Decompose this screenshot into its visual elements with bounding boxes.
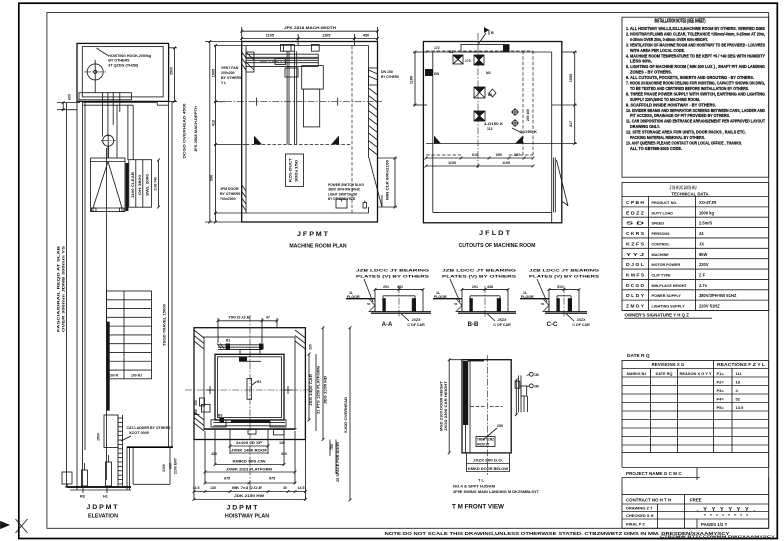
machine room power text xyxy=(328,183,364,201)
svg-text:JZB LDCC JT BEARING: JZB LDCC JT BEARING xyxy=(529,269,599,273)
cutouts small diamond xyxy=(489,89,496,97)
svg-text:2. HOISTWAY:PLUMB AND CLEAR, T: 2. HOISTWAY:PLUMB AND CLEAR, TOLERANCE +… xyxy=(626,31,765,36)
hoistway car walls xyxy=(215,354,284,420)
cutouts trap door xyxy=(461,45,510,53)
svg-text:Y Y J: Y Y J xyxy=(626,252,645,257)
svg-text:PROJECT NAME G C M C: PROJECT NAME G C M C xyxy=(626,471,682,476)
svg-text:C P B H: C P B H xyxy=(626,200,644,205)
machine room centerline cross xyxy=(225,98,382,106)
svg-text:13. ANY QUERIES PLEASE CONTACT: 13. ANY QUERIES PLEASE CONTACT OUR LOCAL… xyxy=(626,140,742,145)
hoistway horizontal centerline xyxy=(185,386,313,394)
svg-text:NO.4 & SFPT HJDKM: NO.4 & SFPT HJDKM xyxy=(453,485,495,489)
svg-text:DUTY LOAD: DUTY LOAD xyxy=(652,211,674,215)
svg-text:BY OTHERS: BY OTHERS xyxy=(221,76,242,80)
svg-text:DRAWING ONLY.: DRAWING ONLY. xyxy=(630,124,660,129)
svg-text:ZONES - BY OTHERS.: ZONES - BY OTHERS. xyxy=(630,70,672,75)
section C-C leader xyxy=(537,279,547,302)
svg-text:MOTOR POWER: MOTOR POWER xyxy=(652,263,681,267)
svg-text:1105: 1105 xyxy=(322,34,330,38)
elevation machine room box xyxy=(77,43,169,101)
svg-text:FINAL P Z: FINAL P Z xyxy=(626,522,646,527)
svg-text:D C G D: D C G D xyxy=(626,283,645,288)
svg-text:24: 24 xyxy=(699,231,704,236)
machine room wall hatch xyxy=(242,52,378,211)
svg-text:J F P M T: J F P M T xyxy=(297,231,328,238)
svg-text:DN 150: DN 150 xyxy=(381,70,393,74)
svg-text:P5=: P5= xyxy=(717,405,725,410)
contract block xyxy=(622,495,769,529)
svg-text:PRODUCT NO.: PRODUCT NO. xyxy=(652,201,678,205)
svg-text:230: 230 xyxy=(194,409,198,415)
svg-text:220V: 220V xyxy=(699,262,709,267)
project name row xyxy=(622,468,769,481)
svg-text:111: 111 xyxy=(736,371,743,376)
svg-text:4. MACHINE ROOM TEMPERATURE TO: 4. MACHINE ROOM TEMPERATURE TO BE KEPT +… xyxy=(626,53,765,58)
revisions header text xyxy=(652,362,766,367)
machine room door dim xyxy=(378,157,398,209)
svg-text:1500: 1500 xyxy=(97,433,101,441)
section C-C body xyxy=(545,289,587,313)
svg-text:295: 295 xyxy=(309,344,313,350)
elevation main vertical dimension xyxy=(57,94,80,487)
cutouts left block xyxy=(425,69,440,76)
hoistway plan outer walls xyxy=(194,328,305,440)
svg-text:B1: B1 xyxy=(488,93,492,97)
svg-text:JXZX: JXZX xyxy=(498,318,508,322)
cutouts title xyxy=(459,230,536,249)
section B-B label xyxy=(468,322,479,328)
svg-text:C OF CAR: C OF CAR xyxy=(407,323,425,327)
svg-text:JXZX: JXZX xyxy=(577,318,587,322)
svg-text:TSGD TRAVEL 15000: TSGD TRAVEL 15000 xyxy=(163,304,167,346)
svg-text:MIN CLR 800x2100: MIN CLR 800x2100 xyxy=(386,160,390,200)
machine room plan outer walls xyxy=(242,42,378,223)
svg-text:9. SCAFFOLD INSIDE HOISTWAY -: 9. SCAFFOLD INSIDE HOISTWAY - BY OTHERS. xyxy=(626,102,716,107)
svg-text:WITH AREA PER LOCAL CODE.: WITH AREA PER LOCAL CODE. xyxy=(630,48,685,53)
svg-text:P1=: P1= xyxy=(717,371,725,376)
svg-text:P2=: P2= xyxy=(717,379,725,384)
elevation overhead rotated text xyxy=(183,104,187,159)
svg-text:C-C: C-C xyxy=(547,322,558,328)
section A-A dims xyxy=(374,285,425,291)
svg-text:2100 ENT: 2100 ENT xyxy=(174,457,178,474)
hoistway wall hatch xyxy=(194,330,305,431)
svg-text:WCM 25: WCM 25 xyxy=(477,442,489,446)
svg-text:JDK 2150 HW: JDK 2150 HW xyxy=(234,494,265,498)
svg-text:201: 201 xyxy=(472,285,478,289)
machine room door rotated label xyxy=(386,160,390,200)
front view inner lines xyxy=(470,355,502,475)
svg-text:172: 172 xyxy=(434,46,440,50)
svg-text:650: 650 xyxy=(496,153,502,157)
svg-text:CHECKED S H: CHECKED S H xyxy=(626,513,654,518)
hoistway car center fixture xyxy=(247,379,261,400)
svg-text:OH 3800: OH 3800 xyxy=(138,175,142,195)
machine room hoistway dashed outline xyxy=(246,46,352,214)
svg-text:J D P M T: J D P M T xyxy=(87,504,118,511)
svg-text:438: 438 xyxy=(487,285,493,289)
section A-A leader xyxy=(364,279,373,302)
svg-text:TMDK TCMZ: TMDK TCMZ xyxy=(477,438,495,442)
front view sill text xyxy=(476,437,495,447)
svg-text:JX: JX xyxy=(699,241,704,246)
svg-text:FREE: FREE xyxy=(690,498,702,503)
cutouts B flag xyxy=(478,27,494,45)
front view left dim xyxy=(440,358,463,454)
svg-text:M2: M2 xyxy=(486,71,491,75)
cutouts hole circles xyxy=(511,108,519,127)
cutouts left dim xyxy=(410,46,440,106)
cutouts squares with X xyxy=(453,55,485,121)
machine room door text left xyxy=(220,187,241,201)
svg-text:50: 50 xyxy=(367,302,371,306)
svg-text:500: 500 xyxy=(210,175,214,181)
svg-text:Z M D Y: Z M D Y xyxy=(626,304,644,309)
svg-text:PERSONS: PERSONS xyxy=(652,232,671,236)
cutouts door swing xyxy=(554,158,569,213)
svg-text:KZG DUCT: KZG DUCT xyxy=(289,157,293,182)
front view bottom dims xyxy=(467,453,510,472)
machine room plan inner walls xyxy=(246,46,378,214)
elevation title xyxy=(87,504,119,520)
svg-text:C OF CAR: C OF CAR xyxy=(572,323,590,327)
cutouts dashed hoistway xyxy=(426,51,533,155)
svg-text:JXNK 1400 ROOF: JXNK 1400 ROOF xyxy=(231,449,268,453)
svg-text:130: 130 xyxy=(210,486,216,490)
technical data grid xyxy=(622,197,769,311)
section A-A centerline xyxy=(398,286,400,318)
svg-text:6. ALL CUTOUTS, POCKETS, INSER: 6. ALL CUTOUTS, POCKETS, INSERTS AND GRO… xyxy=(626,75,754,80)
svg-text:700 D.O.E: 700 D.O.E xyxy=(228,315,251,319)
machine room vent text left xyxy=(221,66,242,85)
hook label text xyxy=(97,48,152,67)
hoistway car door operator xyxy=(239,357,261,362)
machine room door swing xyxy=(369,158,382,207)
elevation machine room height dim xyxy=(169,46,177,102)
svg-text:HOISTING HOOK,2000kg: HOISTING HOOK,2000kg xyxy=(108,54,151,58)
svg-text:1M: 1M xyxy=(534,373,539,377)
svg-text:1100 CLEAR: 1100 CLEAR xyxy=(131,171,135,198)
cutouts outer wall xyxy=(423,42,561,223)
svg-text:E1: E1 xyxy=(449,50,453,54)
svg-text:POWER SWITCH DLKG: POWER SWITCH DLKG xyxy=(328,183,364,187)
svg-text:3. VENTILATION OF MACHINE ROOM: 3. VENTILATION OF MACHINE ROOM AND HOIST… xyxy=(626,42,765,47)
svg-text:FASCIA/DRAIL REQD AT SLAB: FASCIA/DRAIL REQD AT SLAB xyxy=(57,245,61,332)
svg-text:R1: R1 xyxy=(257,380,261,384)
elevation machine bedplate xyxy=(79,84,131,100)
elevation right lower rotated dims xyxy=(169,457,178,474)
svg-text:J F L D T: J F L D T xyxy=(479,230,510,237)
pit entrance doorway xyxy=(133,447,170,484)
elevation shaft right wall xyxy=(169,101,172,447)
svg-text:B: B xyxy=(491,31,494,35)
svg-text:9kW: 9kW xyxy=(699,252,708,257)
svg-text:47: 47 xyxy=(266,315,270,319)
elevation shaft left wall xyxy=(77,101,85,489)
section C-C floor line xyxy=(520,291,549,312)
svg-text:TECHNICAL DATA: TECHNICAL DATA xyxy=(671,191,708,196)
faint logo stamp xyxy=(697,507,755,518)
hoistway top dims xyxy=(217,315,279,343)
svg-text:MARKS BJ: MARKS BJ xyxy=(627,372,647,376)
pit tick labels xyxy=(80,487,108,499)
svg-text:JXWK 2023 PLATFORM: JXWK 2023 PLATFORM xyxy=(226,468,272,472)
svg-text:100 R: 100 R xyxy=(109,373,119,377)
svg-text:LESS 90%.: LESS 90%. xyxy=(630,59,652,64)
section B-B top note xyxy=(442,269,517,279)
section C-C label xyxy=(547,322,558,328)
svg-text:2F9E SWING MAIN LANDING M DKZS: 2F9E SWING MAIN LANDING M DKZSMBLSYT xyxy=(453,490,540,494)
svg-text:REACTIONS F Z Y L: REACTIONS F Z Y L xyxy=(717,362,766,367)
svg-text:12. SITE STORAGE AREA FOR UNIT: 12. SITE STORAGE AREA FOR UNITS, DOOR PA… xyxy=(626,130,746,135)
svg-text:600: 600 xyxy=(169,463,173,469)
svg-text:ELEVATION: ELEVATION xyxy=(88,514,118,520)
section C-C dims xyxy=(548,285,581,291)
svg-text:107: 107 xyxy=(514,153,520,157)
elevation car right dark bar xyxy=(126,163,129,211)
svg-text:8. THREE PHASE POWER SUPPLY WI: 8. THREE PHASE POWER SUPPLY WITH SWITCH,… xyxy=(626,91,765,96)
notes text lines xyxy=(626,26,766,151)
panel side edges xyxy=(622,453,769,495)
section B-B body xyxy=(458,289,516,313)
machine room plan title xyxy=(289,231,347,250)
svg-text:OWNER'S SIGNATURE Y H Q Z: OWNER'S SIGNATURE Y H Q Z xyxy=(625,313,690,318)
svg-text:25 SPACE FOR DOOR: 25 SPACE FOR DOOR xyxy=(336,441,340,482)
svg-text:Y L: Y L xyxy=(221,81,227,85)
svg-text:PLATES (V) BY OTHERS: PLATES (V) BY OTHERS xyxy=(529,275,600,279)
svg-text:CLIP TYPE: CLIP TYPE xyxy=(652,274,672,278)
svg-text:31 PTS 1250 PLATFORM: 31 PTS 1250 PLATFORM xyxy=(317,366,321,414)
section B-B dims xyxy=(461,285,510,291)
machine room left dims xyxy=(194,40,246,223)
footer note text xyxy=(385,531,776,539)
svg-text:POWER SUPPLY: POWER SUPPLY xyxy=(652,294,682,298)
section A-A car cl label xyxy=(401,314,425,327)
cutouts centerline xyxy=(477,33,479,168)
cutouts corner triangles xyxy=(426,136,533,144)
section A-A floor line xyxy=(346,291,375,312)
svg-text:50: 50 xyxy=(541,302,545,306)
section C-C car cl label xyxy=(566,314,590,327)
svg-text:975: 975 xyxy=(224,477,230,481)
machine room top dims xyxy=(240,25,379,46)
svg-text:R3: R3 xyxy=(80,495,85,499)
hoistway left wall fixtures xyxy=(194,398,210,415)
svg-text:1105: 1105 xyxy=(448,161,456,165)
svg-text:320: 320 xyxy=(211,452,217,456)
svg-text:JXS 1400 CAR: JXS 1400 CAR xyxy=(309,373,313,406)
svg-text:ALL TO GB7588-2003 CODE.: ALL TO GB7588-2003 CODE. xyxy=(630,146,682,151)
svg-text:52: 52 xyxy=(736,396,741,401)
section A-A label xyxy=(382,322,393,328)
svg-text:975: 975 xyxy=(269,477,275,481)
machine room rope drop guides xyxy=(285,51,298,144)
hoistway right rotated dims xyxy=(308,326,352,501)
svg-text:450: 450 xyxy=(363,34,369,38)
svg-text:B-B: B-B xyxy=(468,322,479,328)
svg-text:18: 18 xyxy=(736,379,741,384)
elevation deflector pulley xyxy=(101,134,116,158)
svg-text:100: 100 xyxy=(194,400,198,406)
front view top dark bar xyxy=(468,359,484,361)
cutouts inner wall xyxy=(423,52,551,223)
svg-text:BY OTHERS: BY OTHERS xyxy=(220,192,241,196)
svg-text:REASON X G Y Y: REASON X G Y Y xyxy=(680,372,712,376)
svg-text:100 RJ: 100 RJ xyxy=(131,373,142,377)
svg-text:DATE RQ: DATE RQ xyxy=(656,372,673,376)
svg-text:2-O50 K: 2-O50 K xyxy=(520,130,537,134)
svg-text:K M F S: K M F S xyxy=(626,273,644,278)
svg-text:2.7s: 2.7s xyxy=(699,283,708,288)
hoistway plan title xyxy=(225,505,269,520)
svg-text:FLOOR: FLOOR xyxy=(434,295,447,299)
svg-text:250: 250 xyxy=(497,424,503,428)
elevation counterweight frame xyxy=(129,160,152,208)
svg-text:LIGHT SWITCH ZM: LIGHT SWITCH ZM xyxy=(328,192,357,196)
svg-text:FLOOR: FLOOR xyxy=(347,295,360,299)
svg-text:380V/3PH-5W 51HZ: 380V/3PH-5W 51HZ xyxy=(699,293,737,298)
svg-text:50: 50 xyxy=(454,302,458,306)
svg-text:JXZX: JXZX xyxy=(412,318,422,322)
svg-text:E D Z Z: E D Z Z xyxy=(626,210,644,215)
svg-text:VENT FAN: VENT FAN xyxy=(221,66,239,70)
svg-text:2.5m/S: 2.5m/S xyxy=(699,221,712,226)
svg-text:BY OTHERS: BY OTHERS xyxy=(108,59,130,63)
svg-text:1105: 1105 xyxy=(266,34,274,38)
svg-text:2100 740: 2100 740 xyxy=(154,177,158,191)
notes title xyxy=(655,19,706,25)
svg-text:1. ALL HOISTWAY WALLS,SILLS,MA: 1. ALL HOISTWAY WALLS,SILLS,MACHINE ROOM… xyxy=(626,26,765,31)
svg-text:D L D Y: D L D Y xyxy=(626,293,644,298)
owners signature line xyxy=(625,313,713,319)
svg-text:0-35mm OVER 20m, 0-45mm OVER 6: 0-35mm OVER 20m, 0-45mm OVER 60m HEIGHT. xyxy=(630,37,708,42)
svg-text:C K R S: C K R S xyxy=(626,231,644,236)
elevation right inner dim xyxy=(154,159,160,209)
svg-text:DCGD OVERHEAD 4500: DCGD OVERHEAD 4500 xyxy=(183,104,187,159)
svg-text:REVISIONS X G: REVISIONS X G xyxy=(652,362,685,367)
svg-text:DRAWING Z T: DRAWING Z T xyxy=(626,506,653,511)
svg-text:1550: 1550 xyxy=(569,74,573,82)
svg-text:T L: T L xyxy=(478,478,485,483)
svg-text:510: 510 xyxy=(557,285,563,289)
machine room corner triangles xyxy=(254,136,339,145)
machine room cable duct xyxy=(286,154,304,186)
svg-text:SPEED: SPEED xyxy=(652,222,665,226)
section B-B centerline xyxy=(484,286,486,318)
front view right details xyxy=(515,372,539,416)
svg-text:JZB LDCC JT BEARING: JZB LDCC JT BEARING xyxy=(356,269,429,273)
svg-text:PLATES (V) BY OTHERS: PLATES (V) BY OTHERS xyxy=(356,275,430,279)
front view door dark jamb xyxy=(463,361,468,453)
svg-text:1000 kg: 1000 kg xyxy=(699,210,715,215)
installation notes box xyxy=(622,17,769,177)
svg-text:7. HOOK IN MACHINE ROOM CEILIN: 7. HOOK IN MACHINE ROOM CEILING FOR HOIS… xyxy=(626,81,765,86)
elevation left rotated notes xyxy=(57,245,66,332)
cat ladder label xyxy=(97,426,172,441)
svg-text:* * * * * * * *: * * * * * * * * xyxy=(704,513,748,518)
svg-text:30: 30 xyxy=(283,486,287,490)
svg-text:PACKING MATERIAL REMOVAL BY OT: PACKING MATERIAL REMOVAL BY OTHERS. xyxy=(630,135,705,140)
svg-text:300x150: 300x150 xyxy=(295,160,299,182)
svg-text:C OF CAR: C OF CAR xyxy=(493,323,511,327)
section C-C top note xyxy=(529,269,600,279)
svg-text:220V 51HZ: 220V 51HZ xyxy=(699,304,720,309)
svg-text:P3=: P3= xyxy=(717,388,725,393)
svg-text:LIGHTING SUPPLY: LIGHTING SUPPLY xyxy=(652,305,686,309)
front view 250 label xyxy=(483,424,503,440)
svg-text:JFS 2568 MACH.DEPTH: JFS 2568 MACH.DEPTH xyxy=(194,106,198,152)
svg-text:412: 412 xyxy=(212,120,216,126)
elevation rope lines xyxy=(103,92,120,158)
reactions values xyxy=(717,371,745,410)
elevation shaft ceiling slabs xyxy=(83,103,168,161)
section B-B floor line xyxy=(433,291,462,312)
svg-text:JFM DOOR: JFM DOOR xyxy=(220,187,239,191)
hoisting hook xyxy=(84,60,107,84)
svg-text:JXZX 900 D.O.: JXZX 900 D.O. xyxy=(473,459,503,463)
svg-text:14.5: 14.5 xyxy=(298,486,305,490)
svg-text:INSTALLATION NOTES (SEE SHEET): INSTALLATION NOTES (SEE SHEET) xyxy=(655,19,706,25)
svg-text:P4=: P4= xyxy=(717,396,725,401)
cutouts right dims xyxy=(526,51,577,145)
svg-text:KMKD DOOR BELOW: KMKD DOOR BELOW xyxy=(468,467,509,471)
svg-text:113: 113 xyxy=(487,127,493,131)
svg-text:170: 170 xyxy=(465,59,471,63)
machine room power boxes xyxy=(336,199,367,208)
svg-text:200 100: 200 100 xyxy=(526,109,530,121)
hoistway bottom dim rows xyxy=(193,429,307,501)
svg-text:3T QZDG (YHZB): 3T QZDG (YHZB) xyxy=(108,63,139,67)
svg-text:4-O100 K: 4-O100 K xyxy=(484,122,503,126)
svg-text:JXGD 2300 CAR HEIGHT: JXGD 2300 CAR HEIGHT xyxy=(444,380,448,431)
svg-text:201: 201 xyxy=(383,285,389,289)
revisions reactions table xyxy=(622,361,769,453)
plot corner X mark xyxy=(16,519,28,533)
svg-text:2M: 2M xyxy=(534,385,539,389)
section B-B car cl label xyxy=(487,314,511,327)
svg-text:SJGD OVERHEAD: SJGD OVERHEAD xyxy=(344,396,348,433)
machine room top vents xyxy=(281,45,320,52)
svg-text:MACHINE: MACHINE xyxy=(652,253,670,257)
svg-text:JFK 2818 MACH.WIDTH: JFK 2818 MACH.WIDTH xyxy=(284,25,336,30)
section A-A body xyxy=(371,289,431,313)
svg-text:TO BE TESTED AND CERTIFIED BEF: TO BE TESTED AND CERTIFIED BEFORE INSTAL… xyxy=(630,86,749,91)
svg-text:JZB LDCC JT BEARING: JZB LDCC JT BEARING xyxy=(442,269,516,273)
front view outline xyxy=(462,360,511,453)
svg-text:700x2000: 700x2000 xyxy=(220,197,236,201)
svg-text:2500: 2500 xyxy=(169,67,173,75)
svg-text:BY OTHERS: BY OTHERS xyxy=(381,75,400,79)
hoistway corner fixture B3 xyxy=(218,414,224,423)
technical data table frame xyxy=(622,183,769,311)
svg-text:13.5: 13.5 xyxy=(736,405,745,410)
svg-text:CAT-LADDER BY OTHERS: CAT-LADDER BY OTHERS xyxy=(127,426,172,430)
cutouts small labels xyxy=(449,50,537,134)
date label xyxy=(627,353,650,359)
elevation guide rail xyxy=(107,148,110,480)
pit floor xyxy=(67,447,174,490)
svg-text:FLOOR: FLOOR xyxy=(521,295,534,299)
cat ladder xyxy=(104,415,123,486)
svg-text:T M FRONT VIEW: T M FRONT VIEW xyxy=(452,505,504,511)
machine room small rect on centerline xyxy=(260,59,286,65)
revisions subheader xyxy=(627,372,712,376)
svg-text:XO-4TJR: XO-4TJR xyxy=(699,200,716,205)
pit left dim box xyxy=(62,472,72,484)
svg-text:B1: B1 xyxy=(226,339,230,343)
svg-text:2100: 2100 xyxy=(162,464,166,472)
section B-B leader xyxy=(450,279,460,302)
